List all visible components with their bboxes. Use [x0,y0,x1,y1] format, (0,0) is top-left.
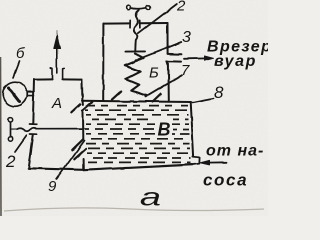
gauge needle [9,88,19,101]
svg-text:7: 7 [181,62,190,79]
seat valve right [153,94,161,102]
T foot [126,45,145,52]
svg-text:вуар: вуар [214,53,257,70]
label leader 9 [57,141,85,180]
svg-text:8: 8 [214,83,224,102]
svg-text:от на-: от на- [206,143,264,160]
outlet spout top lip [168,53,182,55]
svg-text:3: 3 [182,29,191,46]
pilot chamber right wall [167,23,169,53]
svg-text:2: 2 [5,152,16,171]
chamber A right wall [81,80,83,101]
gauge 6 body [3,82,28,107]
level switch 2 [8,118,12,122]
chamber A left wall upper [33,80,34,124]
liquid hatching [85,106,191,163]
spring 3 [124,54,147,96]
gland cap lower [30,133,37,135]
vent pipe [50,68,64,80]
tank right wall [191,102,194,156]
wall below lip [167,64,169,101]
label leader 8 [193,98,214,102]
pilot chamber top edge [104,22,168,25]
svg-text:соса: соса [203,171,248,190]
scan edge left [0,57,2,216]
vent arrow [56,48,58,74]
pilot chamber left wall [102,24,104,101]
gauge connection nipple [28,92,34,96]
label leader b [14,62,20,78]
svg-text:Б: Б [149,65,159,82]
tank left wall segments [83,101,84,170]
pump inlet arrow [209,161,227,163]
chamber A bottom edge [29,168,83,170]
pump inlet stub [192,157,200,165]
tank bottom edge [84,165,192,171]
chamber A top edge [34,78,82,80]
label leader 2 upper [138,4,177,33]
seat valve left [112,92,121,100]
gland cap upper [30,123,37,125]
actuator bar with rollers [127,6,131,10]
flow arrow to reservoir [184,57,206,59]
flexible stem [134,10,139,45]
flap valve 9 upper [71,102,92,112]
svg-text:В: В [158,120,171,140]
svg-text:б: б [16,45,25,62]
svg-text:2: 2 [176,0,186,15]
svg-text:А: А [51,95,62,112]
chamber A left wall lower [29,135,34,168]
label leader 3 [136,42,182,60]
gland ticks top [130,20,140,28]
label leader 7 [148,75,182,95]
flap valve 9 lower [72,139,86,158]
tank top edge [82,101,191,102]
outlet spout bottom lip [167,61,181,64]
label leader 2 lower [15,136,27,152]
svg-text:а: а [140,183,161,211]
scan streak bottom [4,208,264,211]
svg-text:9: 9 [48,178,57,195]
pipe with flex section [12,128,85,132]
